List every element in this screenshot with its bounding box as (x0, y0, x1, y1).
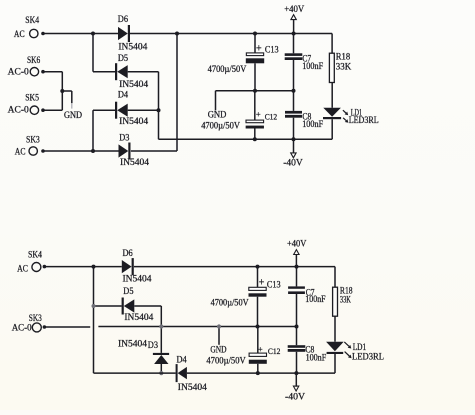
wire D4 anode to junction (128, 109, 159, 111)
wire D6 cathode rail (bottom) (134, 266, 335, 268)
LED LD1 (top) (323, 108, 379, 126)
svg-text:D4: D4 (177, 355, 187, 365)
svg-text:AC-0: AC-0 (8, 67, 29, 77)
node D5 cathode junction (92, 304, 96, 308)
capacitor C12 (top) (246, 91, 278, 140)
wire SK3 to D3 anode (43, 150, 119, 152)
terminal SK4 (bottom) (17, 250, 46, 274)
svg-text:100nF: 100nF (305, 294, 325, 304)
diode D4 (top) (115, 91, 148, 128)
wire R18 to LED LD1 (bottom) (334, 316, 336, 342)
node C12 bottom junction (bottom) (256, 371, 260, 375)
svg-text:AC-0: AC-0 (12, 323, 32, 333)
terminal SK3 (bottom) (12, 314, 47, 334)
svg-text:SK4: SK4 (28, 250, 42, 260)
wire SK5 to GND net (43, 109, 62, 111)
svg-text:IN5404: IN5404 (118, 43, 147, 53)
node AC2 junction (top) (91, 149, 95, 153)
wire AC to D5 cathode (bottom) (94, 305, 122, 307)
terminal SK3 (top) (15, 136, 45, 158)
svg-text:IN5404: IN5404 (118, 340, 147, 350)
wire SK3 row left segment (44, 326, 90, 328)
wire SK4 to D6 anode (43, 33, 118, 35)
diode D3 (top) (119, 134, 150, 168)
svg-text:AC: AC (15, 148, 26, 158)
wire D3 anode to rail (160, 364, 162, 373)
svg-text:+40V: +40V (287, 239, 307, 249)
node GND junction (SK6/SK5) (60, 89, 64, 93)
svg-text:IN5404: IN5404 (178, 383, 207, 393)
node C7 top junction (bottom) (295, 265, 299, 269)
wire D5 anode to GND row and D3 (134, 306, 161, 353)
capacitor C8 (bottom) (288, 327, 327, 374)
node C7 bottom junction (bottom) (295, 325, 299, 329)
node C13 bottom junction (bottom) (256, 325, 260, 329)
svg-text:33K: 33K (340, 296, 351, 306)
svg-text:33K: 33K (336, 63, 352, 73)
diode D5 (top) (115, 54, 148, 90)
svg-text:100nF: 100nF (302, 61, 323, 71)
diode D6 (bottom) (122, 249, 152, 284)
svg-text:SK3: SK3 (29, 314, 42, 324)
svg-text:AC: AC (17, 265, 28, 275)
svg-text:R18: R18 (336, 52, 351, 62)
svg-text:IN5404: IN5404 (120, 158, 149, 168)
svg-text:D6: D6 (123, 249, 133, 259)
diode D5 (bottom) (122, 287, 154, 323)
node C13 top junction (bottom) (256, 265, 260, 269)
svg-text:+: + (256, 44, 262, 55)
wire LED to -40V rail (bottom) (334, 354, 336, 373)
svg-text:+: + (259, 278, 265, 289)
svg-text:IN5404: IN5404 (119, 80, 148, 90)
svg-text:+: + (256, 109, 261, 119)
node GND stub junction (217, 324, 221, 328)
node D5/GND row junction (159, 324, 163, 328)
capacitor C13 (bottom) (249, 267, 281, 327)
power -40V (top) (283, 139, 303, 168)
resistor R18 (top) (329, 34, 351, 83)
wire D5 anode to junction (128, 72, 159, 140)
terminal SK4 (top) (14, 16, 45, 40)
LED LD1 (bottom) (326, 342, 384, 363)
svg-text:D6: D6 (118, 15, 128, 25)
wire LED to -40V rail (top) (331, 119, 333, 139)
svg-text:SK5: SK5 (25, 93, 39, 103)
svg-text:4700µ/50V: 4700µ/50V (208, 65, 247, 75)
svg-text:GND: GND (64, 111, 82, 121)
svg-text:IN5404: IN5404 (119, 117, 148, 127)
node AC junction (bottom) (92, 265, 96, 269)
wire AC2 up to D4 cathode (93, 110, 115, 151)
wire AC1 down to D5 cathode (93, 34, 115, 72)
power +40V (top) (284, 5, 304, 33)
wire SK6-SK5 vertical link (61, 72, 63, 111)
power +40V (bottom) (287, 239, 307, 266)
svg-text:C12: C12 (265, 113, 278, 122)
ground GND (bottom) (210, 327, 226, 356)
svg-text:LED3RL: LED3RL (349, 116, 379, 126)
terminal SK6 (8, 56, 45, 77)
wire SK4 to D6 anode (bottom) (44, 266, 121, 268)
node D5/D4 anode junction (157, 108, 161, 112)
svg-text:SK3: SK3 (26, 136, 40, 146)
svg-text:100nF: 100nF (306, 352, 327, 362)
node C7 bottom junction (292, 89, 296, 93)
svg-text:+40V: +40V (284, 5, 304, 15)
wire R18 to LED LD1 (top) (331, 83, 333, 108)
wire -40V rail (top) (159, 138, 333, 140)
node AC1 junction (top) (91, 32, 95, 36)
wire GND row (top) (216, 90, 294, 92)
node C13 top junction (253, 32, 257, 36)
wire SK3/GND row (bottom) (98, 326, 296, 328)
capacitor C12 (bottom) (249, 327, 281, 374)
svg-text:D5: D5 (118, 54, 128, 64)
wire SK6 to GND net (43, 71, 62, 73)
diode D4 (bottom) (176, 355, 207, 393)
node C8 bottom junction (292, 137, 296, 141)
wire AC riser down (bottom) (93, 267, 95, 374)
wire +40V rail (top) (130, 33, 332, 35)
wire D3 cathode to +V riser (131, 34, 177, 152)
svg-text:IN5404: IN5404 (123, 274, 152, 284)
svg-text:IN5404: IN5404 (124, 313, 153, 323)
svg-text:SK6: SK6 (27, 56, 40, 66)
power -40V (bottom) (285, 373, 305, 402)
resistor R18 (bottom) (333, 267, 353, 317)
svg-text:4700µ/50V: 4700µ/50V (206, 356, 245, 366)
wire AC rail segment (bottom left) (94, 372, 176, 374)
svg-text:AC: AC (14, 30, 25, 40)
svg-text:D5: D5 (123, 287, 133, 297)
capacitor C13 (top) (246, 34, 279, 91)
capacitor C8 (top) (285, 91, 323, 140)
node C13 bottom junction (253, 89, 257, 93)
svg-text:100nF: 100nF (302, 119, 323, 129)
svg-text:4700µ/50V: 4700µ/50V (201, 121, 240, 131)
svg-text:LED3RL: LED3RL (352, 352, 384, 362)
svg-text:D3: D3 (148, 341, 158, 351)
svg-text:D3: D3 (119, 134, 129, 144)
node D6 cathode junction (175, 32, 179, 36)
svg-text:C13: C13 (265, 46, 279, 56)
node C7 top junction (292, 32, 296, 36)
svg-text:-40V: -40V (283, 158, 303, 168)
svg-text:4700µ/50V: 4700µ/50V (211, 299, 249, 309)
svg-text:SK4: SK4 (25, 16, 39, 26)
svg-text:C13: C13 (267, 281, 281, 291)
svg-text:+: + (258, 344, 263, 354)
node D3 anode junction (159, 371, 163, 375)
terminal SK5 (8, 93, 45, 115)
wire -40V rail (bottom) (187, 372, 335, 374)
svg-text:-40V: -40V (285, 392, 305, 402)
node C12 bottom junction (253, 137, 257, 141)
diode D3 (bottom, vertical) (118, 340, 169, 365)
node C8 bottom junction (bottom) (294, 371, 298, 375)
svg-text:AC-0: AC-0 (8, 106, 29, 116)
diode D6 (top) (118, 15, 148, 53)
ground GND (center, top) (208, 91, 227, 121)
capacitor C7 (top) (285, 34, 324, 91)
svg-text:GND: GND (210, 345, 226, 355)
svg-text:C12: C12 (268, 347, 281, 356)
capacitor C7 (bottom) (288, 267, 325, 327)
svg-text:D4: D4 (118, 91, 128, 101)
ground GND (left) (62, 91, 82, 121)
svg-text:GND: GND (208, 111, 227, 121)
